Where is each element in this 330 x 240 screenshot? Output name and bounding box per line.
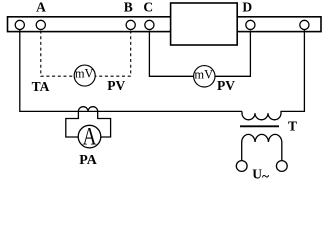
- svg-text:B: B: [124, 0, 133, 15]
- terminal C: [145, 20, 154, 29]
- wire from terminal 1 down and across (main loop): [20, 30, 242, 112]
- secondary terminal right: [276, 161, 287, 172]
- terminal D: [246, 20, 255, 29]
- TA secondary left leg: [66, 111, 79, 137]
- svg-text:mV: mV: [75, 67, 94, 81]
- terminal A: [36, 20, 45, 29]
- svg-text:PA: PA: [79, 152, 97, 167]
- transformer core: [240, 125, 279, 127]
- ammeter PA: [78, 125, 101, 148]
- terminal B: [126, 20, 135, 29]
- svg-text:TA: TA: [32, 79, 50, 94]
- wire PV2 to D: [215, 31, 250, 77]
- dashed wire from B to PV1: [95, 31, 130, 77]
- TA primary bumps: [78, 107, 97, 112]
- svg-text:D: D: [242, 0, 252, 15]
- wire C to PV2: [149, 31, 193, 77]
- svg-text:A: A: [36, 0, 46, 15]
- transformer primary winding: [242, 30, 304, 120]
- transformer secondary winding: [242, 134, 282, 160]
- millivoltmeter PV2: [194, 66, 215, 87]
- millivoltmeter PV1: [74, 65, 95, 86]
- svg-text:U~: U~: [252, 167, 269, 181]
- shunt box between C and D: [171, 3, 238, 45]
- terminal 1 (leftmost): [15, 20, 24, 29]
- svg-text:PV: PV: [217, 78, 235, 93]
- svg-text:A: A: [83, 123, 97, 150]
- secondary terminal left: [236, 161, 247, 172]
- svg-text:PV: PV: [107, 78, 125, 93]
- terminal 6 (rightmost): [300, 20, 309, 29]
- TA secondary right leg: [98, 111, 111, 137]
- svg-text:C: C: [143, 0, 153, 15]
- svg-text:mV: mV: [194, 67, 213, 81]
- svg-text:T: T: [288, 119, 297, 134]
- dashed wire from A to PV1: [41, 31, 74, 77]
- bus bar: [8, 17, 322, 32]
